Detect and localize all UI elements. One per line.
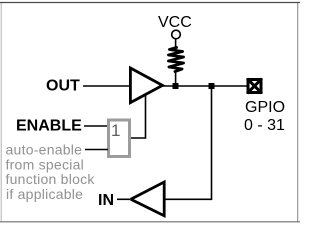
svg-text:function block: function block: [6, 171, 96, 187]
wire OUT to buffer input: [83, 85, 129, 87]
svg-text:IN: IN: [98, 192, 114, 209]
port OUT: [46, 78, 80, 95]
node: pad junction: [209, 83, 215, 89]
wire annotation to auto-enable block: [85, 149, 108, 151]
svg-text:1: 1: [111, 121, 120, 140]
port ENABLE: [16, 118, 82, 135]
wire IN to input buffer output: [117, 198, 130, 200]
VCC supply terminal: [172, 30, 181, 39]
block: auto-enable gate "1": [109, 120, 130, 157]
buffer U1 (output driver): [130, 68, 162, 103]
svg-text:auto-enable: auto-enable: [6, 142, 83, 158]
svg-text:OUT: OUT: [46, 78, 80, 95]
svg-text:GPIO: GPIO: [245, 99, 285, 116]
wire pad junction down to input buffer net: [166, 89, 212, 199]
wire block output to buffer enable pin: [131, 95, 146, 138]
svg-text:VCC: VCC: [158, 14, 192, 31]
wire ENABLE to auto-enable block: [84, 125, 108, 127]
port IN: [98, 192, 114, 209]
label GPIO 0 - 31: [244, 99, 285, 134]
node: pull-up junction: [173, 83, 179, 89]
svg-text:if applicable: if applicable: [6, 186, 83, 202]
buffer U2 (input receiver): [131, 182, 164, 216]
resistor R (pull-up): [169, 48, 184, 72]
net label VCC: [158, 14, 192, 31]
svg-text:ENABLE: ENABLE: [16, 118, 82, 135]
wire resistor to output node: [175, 71, 177, 86]
wire buffer output to pad: [162, 85, 247, 87]
pad GPIO (I/O pad symbol): [247, 79, 262, 94]
svg-text:0 - 31: 0 - 31: [244, 117, 285, 134]
svg-text:from special: from special: [6, 156, 84, 172]
annotation: auto-enable note: [6, 142, 96, 202]
wire VCC terminal to resistor: [175, 39, 177, 48]
